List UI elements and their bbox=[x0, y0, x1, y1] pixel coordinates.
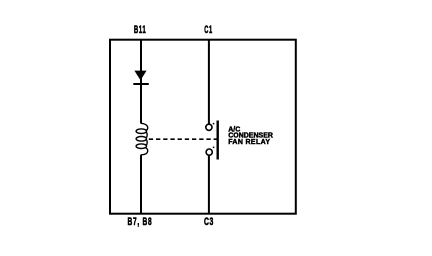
contact armature bar bbox=[216, 121, 218, 160]
relay coil exit arc bbox=[141, 148, 148, 155]
contact fixed terminal circle (top) bbox=[206, 124, 212, 130]
wire: coil to B7,B8 terminal bbox=[140, 155, 142, 213]
dashed actuating link: coil to contact armature bbox=[149, 138, 217, 140]
contact armature tick (bottom) bbox=[213, 147, 215, 149]
relay outline box bbox=[110, 40, 296, 214]
svg-text:B7, B8: B7, B8 bbox=[128, 215, 153, 227]
diode cathode bar bbox=[133, 83, 149, 85]
relay coil entry arc bbox=[141, 123, 148, 130]
contact armature tick (top) bbox=[213, 123, 215, 125]
wire: contact to C3 terminal bbox=[208, 155, 210, 213]
svg-text:C3: C3 bbox=[204, 215, 214, 227]
contact fixed terminal circle (bottom) bbox=[206, 149, 212, 155]
svg-text:B11: B11 bbox=[134, 23, 146, 35]
relay coil connector 2-3 bbox=[146, 140, 149, 145]
relay coil loop 1 bbox=[136, 129, 146, 134]
wire: B11 terminal to diode/coil (left vertical) bbox=[140, 40, 142, 124]
relay coil connector 1-2 bbox=[146, 132, 149, 137]
svg-text:C1: C1 bbox=[204, 23, 212, 36]
svg-text:FAN RELAY: FAN RELAY bbox=[228, 139, 270, 146]
diode (clamping diode, anode up) bbox=[134, 71, 146, 81]
relay coil loop 3 bbox=[136, 144, 146, 149]
wire: C1 terminal to contact (right vertical) bbox=[208, 40, 210, 124]
relay coil loop 2 bbox=[136, 137, 146, 142]
